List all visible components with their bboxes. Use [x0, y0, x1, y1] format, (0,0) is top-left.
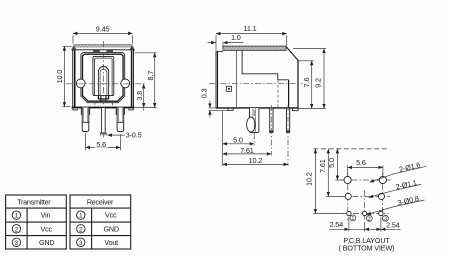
top mold bump right: [106, 49, 113, 52]
svg-text:2: 2: [15, 226, 19, 233]
side hidden edge (dashed): [277, 80, 279, 108]
svg-text:3-0.5: 3-0.5: [126, 130, 142, 139]
mold line left: [94, 101, 96, 105]
hole 1.6 left: [344, 176, 351, 183]
receiver table frame: [70, 195, 131, 249]
pcb column centerlines: [347, 173, 349, 221]
receiver pin 2: [77, 224, 119, 233]
svg-text:2: 2: [368, 216, 371, 222]
front body left wall: [74, 50, 76, 107]
svg-text:2.54: 2.54: [386, 221, 400, 230]
front right pin root: [116, 108, 124, 115]
transmitter pin 2: [12, 224, 52, 233]
pcb reference line: [313, 148, 389, 150]
svg-text:2: 2: [79, 226, 83, 233]
lens capsule inner: [100, 69, 107, 95]
svg-text:5.0: 5.0: [327, 158, 336, 168]
svg-text:1: 1: [351, 216, 354, 222]
svg-text:Receiver: Receiver: [87, 198, 114, 207]
svg-text:9.2: 9.2: [314, 78, 323, 88]
front left pin root: [81, 108, 89, 115]
transmitter pin 1: [12, 211, 50, 220]
svg-text:2.54: 2.54: [329, 220, 343, 229]
front middle pin foot: [101, 133, 106, 135]
side pin 1 solder bulge: [247, 117, 256, 132]
dimension 9.2 (side right): [293, 49, 326, 109]
svg-text:10.2: 10.2: [249, 156, 263, 165]
pcb dimension 10.2: [304, 149, 344, 214]
svg-text:1.0: 1.0: [231, 33, 241, 42]
hole 0.8 middle: [362, 211, 366, 215]
leader 3-o0.8: [367, 194, 425, 215]
svg-text:7.61: 7.61: [318, 159, 327, 173]
dimension 10.0: [55, 46, 72, 106]
front body right wall: [131, 50, 133, 107]
front inner octagon outer line: [81, 53, 125, 103]
side pin 1 (front row): [250, 108, 259, 132]
svg-text:10.0: 10.0: [55, 70, 64, 84]
leader 2-o1.6: [370, 160, 427, 182]
svg-text:3: 3: [15, 240, 19, 247]
front right pin shank: [117, 108, 124, 132]
front body outer shell: [73, 50, 134, 108]
svg-text:Transmitter: Transmitter: [17, 198, 51, 207]
svg-text:7.6: 7.6: [302, 78, 311, 88]
side right standoff: [293, 108, 299, 111]
lens capsule outer: [98, 67, 108, 96]
side mounting-hole square: [226, 86, 231, 91]
lens capsule lower inner bars: [101, 96, 106, 101]
hole 1.6 right: [379, 176, 386, 183]
pcb dimension 5.6: [348, 158, 383, 176]
svg-text:Vcc: Vcc: [105, 211, 117, 220]
pin centerline extensions: [253, 110, 255, 146]
side internal rear wall: [288, 80, 290, 108]
dimension 5.0 (side): [223, 136, 255, 145]
side bottom edge: [216, 107, 298, 109]
pcb dimension 5.0: [327, 149, 343, 180]
side internal front-face line: [236, 50, 238, 107]
pad number 1: [350, 215, 356, 222]
front body bottom edge: [72, 107, 135, 109]
pcb dimension 2.54 right: [365, 217, 401, 232]
svg-text:11.1: 11.1: [243, 24, 256, 33]
svg-text:7.61: 7.61: [240, 146, 254, 155]
side left edge: [215, 52, 217, 108]
svg-text:GND: GND: [39, 238, 54, 247]
pcb dimension 2.54 left: [329, 217, 365, 232]
side internal step: [242, 50, 289, 79]
mold line right: [112, 101, 114, 105]
dimension 1.0: [208, 33, 244, 46]
receiver pin 1: [77, 211, 117, 220]
svg-text:( BOTTOM VIEW): ( BOTTOM VIEW): [339, 243, 395, 252]
receiver pin 3: [77, 238, 119, 247]
front vertical centerline: [102, 41, 104, 138]
svg-text:5.6: 5.6: [96, 140, 106, 149]
svg-text:Vout: Vout: [104, 238, 118, 247]
pad number 3: [383, 215, 389, 222]
front body top cap (hatched): [72, 45, 135, 50]
right ear boss: [121, 79, 130, 88]
pad number 2: [366, 215, 372, 222]
cap end wedge right: [130, 46, 135, 50]
front horizontal centerline: [66, 83, 147, 85]
dimension 0.3: [200, 88, 228, 117]
front window outer: [93, 56, 114, 95]
svg-text:Vin: Vin: [41, 211, 51, 220]
svg-text:5.0: 5.0: [233, 136, 243, 145]
dimension 9.45: [73, 25, 133, 44]
svg-text:5.6: 5.6: [356, 158, 366, 167]
svg-text:3: 3: [79, 240, 83, 247]
dimension 8.7: [135, 53, 157, 108]
dimension 5.6 (front pins): [86, 133, 121, 150]
front middle pin: [102, 108, 106, 134]
side right edge: [297, 60, 299, 108]
hole 1.1 right: [378, 193, 384, 199]
dimension 7.6 (side right): [299, 61, 314, 109]
svg-text:1: 1: [15, 213, 19, 220]
lens capsule lower sides: [98, 96, 108, 99]
side top-right chamfer: [286, 46, 298, 60]
left ear boss: [76, 79, 85, 88]
pcb row centerlines: [340, 179, 391, 181]
side pin 2: [270, 108, 273, 132]
hole 0.8 left: [347, 211, 351, 215]
dimension 3.8: [135, 84, 157, 111]
svg-text:1: 1: [79, 213, 83, 220]
dimension 7.61 (side): [223, 146, 272, 155]
dimension 11.1: [216, 24, 287, 51]
front left pin shank: [82, 108, 89, 132]
side left standoff: [228, 108, 234, 110]
svg-text:3.8: 3.8: [135, 91, 144, 101]
front left standoff tab: [73, 108, 77, 110]
hole 1.1 left: [345, 193, 351, 199]
datum extension line: [222, 111, 224, 166]
svg-text:10.2: 10.2: [304, 172, 313, 186]
side horizontal centerline: [209, 83, 303, 85]
cap end wedge left: [72, 46, 77, 50]
svg-text:8.7: 8.7: [146, 71, 155, 81]
front inner octagon inner line: [83, 54, 124, 101]
svg-text:Vcc: Vcc: [41, 224, 53, 233]
front window inner: [95, 58, 113, 96]
transmitter table frame: [6, 195, 67, 249]
top mold bump left: [93, 49, 100, 52]
side cap (hatched): [223, 46, 286, 50]
svg-text:0.3: 0.3: [200, 88, 209, 98]
front right standoff tab: [129, 108, 133, 110]
pcb dimension 7.61: [318, 149, 344, 197]
svg-text:GND: GND: [104, 224, 119, 233]
transmitter pin 3: [12, 238, 54, 247]
side pin 3: [286, 108, 289, 132]
dimension 10.2 (side): [223, 156, 289, 165]
side top-left step: [216, 51, 223, 53]
svg-text:9.45: 9.45: [96, 25, 110, 34]
leader 3-0.5: [108, 130, 142, 139]
leader 2-o1.1: [369, 178, 421, 197]
hole 0.8 right: [379, 211, 383, 215]
